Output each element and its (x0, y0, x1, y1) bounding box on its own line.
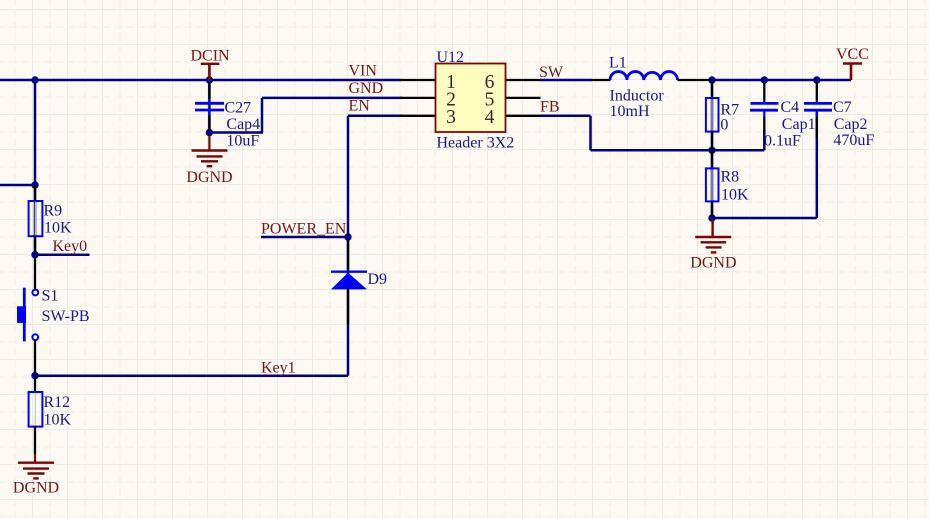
net label SW (539, 64, 564, 81)
svg-text:DGND: DGND (690, 255, 736, 272)
svg-text:VIN: VIN (349, 63, 378, 80)
wire Key1 horizontal (35, 374, 348, 377)
junction node Key1 (31, 372, 38, 379)
svg-text:R12: R12 (44, 394, 71, 411)
wire bottom node to C7 (712, 217, 817, 220)
connector U12 Header 3X2 (400, 49, 541, 152)
svg-text:Key1: Key1 (261, 359, 296, 376)
junction node left top (31, 76, 38, 83)
svg-text:SW: SW (539, 64, 564, 81)
wire GND to C27 (209, 131, 263, 134)
resistor R12 (29, 379, 72, 454)
svg-text:EN: EN (349, 98, 371, 115)
pin number 5 (485, 89, 495, 110)
pin number 6 (485, 72, 495, 93)
wire left stub y=184.5 (0, 184, 35, 187)
svg-text:SW-PB: SW-PB (42, 308, 90, 325)
junction node L1/R7 (708, 76, 715, 83)
capacitor C27 (195, 83, 260, 150)
junction node FB/R7/R8 (708, 147, 715, 154)
svg-text:U12: U12 (437, 49, 465, 66)
svg-text:0: 0 (720, 117, 728, 134)
svg-text:0.1uF: 0.1uF (764, 133, 801, 150)
wire GND horizontal (262, 97, 402, 100)
wire C27 vertical (208, 80, 211, 133)
svg-text:10K: 10K (44, 220, 72, 237)
wire Key0 stub (35, 253, 90, 256)
svg-text:10uF: 10uF (226, 133, 259, 150)
power port VCC (836, 46, 869, 80)
svg-text:C7: C7 (833, 99, 852, 116)
wire FB to R7/R8 node (591, 149, 765, 152)
net label GND (349, 80, 384, 97)
resistor R9 (29, 186, 72, 252)
svg-text:GND: GND (349, 80, 384, 97)
wire FB horizontal from pin (541, 115, 591, 118)
wire C7 vertical (816, 112, 819, 218)
capacitor C7 (804, 83, 874, 149)
net label Key1 (261, 359, 296, 376)
net label FB (540, 99, 560, 116)
svg-text:L1: L1 (609, 55, 627, 72)
diode D9 (331, 240, 387, 324)
wire EN vertical through D9 (347, 116, 350, 376)
svg-text:3: 3 (446, 107, 456, 128)
capacitor C4 (750, 83, 816, 150)
svg-text:C4: C4 (781, 99, 800, 116)
resistor R8 (706, 152, 749, 217)
svg-text:Cap2: Cap2 (834, 116, 868, 133)
svg-text:DGND: DGND (13, 480, 59, 497)
junction node R8/C7 bottom (708, 214, 715, 221)
pin number 4 (485, 107, 495, 128)
svg-text:10K: 10K (44, 412, 72, 429)
svg-text:4: 4 (485, 107, 495, 128)
svg-text:FB: FB (540, 99, 560, 116)
pin number 2 (446, 89, 456, 110)
wire main horizontal net DCIN/VIN/SW/VCC (0, 79, 851, 82)
svg-text:POWER_EN: POWER_EN (261, 221, 347, 238)
svg-text:Cap1: Cap1 (782, 116, 816, 133)
ground DGND bottom left (13, 454, 59, 497)
junction node C7 top (813, 76, 820, 83)
svg-text:470uF: 470uF (833, 132, 874, 149)
junction node C4 top (761, 76, 768, 83)
power port DCIN (191, 47, 231, 80)
net label VIN (349, 63, 378, 80)
pin number 3 (446, 107, 456, 128)
junction node left stub (31, 181, 38, 188)
ground DGND under C27 (186, 136, 232, 186)
svg-text:Key0: Key0 (53, 238, 88, 255)
svg-text:D9: D9 (368, 271, 388, 288)
svg-text:DGND: DGND (186, 169, 232, 186)
switch S1 SW-PB (17, 258, 90, 373)
svg-text:C27: C27 (225, 100, 252, 117)
wire FB vertical (589, 116, 592, 151)
wire EN horizontal (348, 115, 402, 118)
wire GND vertical (261, 98, 264, 133)
resistor R7 (706, 82, 739, 149)
svg-text:10mH: 10mH (610, 103, 650, 120)
svg-text:S1: S1 (42, 288, 59, 305)
svg-text:VCC: VCC (836, 46, 869, 63)
svg-text:10K: 10K (721, 186, 749, 203)
svg-text:DCIN: DCIN (191, 47, 231, 64)
svg-text:Cap4: Cap4 (226, 116, 260, 133)
wire left vertical bus x=35 (34, 80, 37, 376)
junction node DCIN (206, 76, 213, 83)
net label POWER_EN (261, 221, 347, 238)
svg-text:R9: R9 (44, 203, 63, 220)
junction node Key0 (31, 251, 38, 258)
pin number 1 (446, 72, 456, 93)
wire R7-R8 vertical (711, 80, 714, 218)
junction node C27 bottom (206, 129, 213, 136)
wire C4 bottom lead (763, 130, 766, 150)
net label Key0 (53, 238, 88, 255)
net label EN (349, 98, 371, 115)
junction node POWER_EN (344, 233, 351, 240)
ground DGND under R8 (690, 219, 736, 272)
inductor L1 (592, 55, 713, 121)
wire POWER_EN stub (261, 236, 348, 239)
svg-text:Header 3X2: Header 3X2 (437, 135, 515, 152)
svg-text:Inductor: Inductor (610, 88, 665, 105)
svg-text:R8: R8 (721, 168, 740, 185)
